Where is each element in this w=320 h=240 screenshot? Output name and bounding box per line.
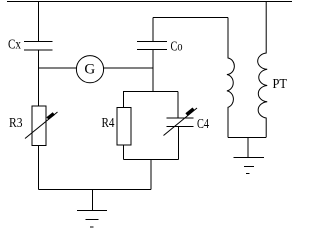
variable arrow of C4 — [164, 108, 198, 136]
arrowhead of R3 — [46, 112, 55, 120]
ground right: bars — [233, 157, 264, 173]
arrowhead of C4 — [185, 108, 194, 116]
capacitor Cx plates — [24, 42, 53, 51]
wire C4 bottom stub — [178, 127, 180, 160]
wire right lead from G to node — [104, 67, 153, 69]
svg-text:Co: Co — [171, 40, 183, 55]
wire Cx top dropper — [38, 2, 40, 42]
wire R4 bottom stub — [123, 145, 125, 160]
svg-text:G: G — [84, 62, 95, 78]
svg-text:PT: PT — [273, 77, 288, 92]
wire Co top dropper — [152, 18, 154, 42]
variable arrow of R3 — [25, 112, 58, 139]
wire C4 top stub — [177, 92, 179, 119]
wire tank loop bottom — [124, 159, 179, 161]
capacitor C4 plates — [167, 118, 194, 127]
svg-text:R4: R4 — [102, 116, 115, 131]
svg-text:Cx: Cx — [8, 38, 21, 53]
ground center: stem — [91, 190, 93, 211]
wire main ground bus bottom — [39, 189, 152, 191]
transformer PT primary winding (left coil) — [227, 18, 234, 138]
ground center: bars — [77, 211, 107, 228]
wire Cx bottom to R3 top (junction at G wire) — [38, 50, 40, 106]
wire R4 top stub — [123, 92, 125, 108]
svg-text:C4: C4 — [197, 117, 209, 132]
wire R3 bottom to ground bus — [38, 146, 40, 190]
wire PT bottom connector — [228, 137, 266, 139]
resistor R3 body — [32, 106, 46, 146]
resistor R4 body — [117, 108, 131, 146]
transformer PT secondary winding (right coil) — [258, 2, 268, 138]
wire left lead to G — [39, 67, 77, 69]
galvanometer G (detector circle) — [76, 56, 103, 83]
capacitor Co plates — [137, 42, 167, 50]
wire second bus to PT primary — [153, 17, 228, 19]
ground right: stem — [247, 138, 249, 158]
svg-text:R3: R3 — [9, 116, 23, 131]
wire Co bottom down to tank top — [152, 50, 154, 92]
wire tank bottom feed stub — [150, 160, 152, 190]
wire tank loop top — [123, 91, 178, 93]
wire top bus — [7, 1, 292, 3]
